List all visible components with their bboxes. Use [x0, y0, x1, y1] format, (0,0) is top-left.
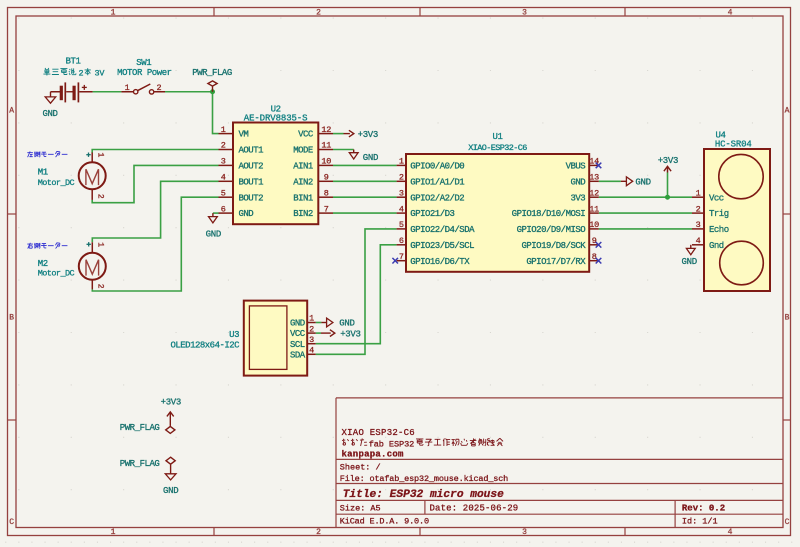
svg-text:PWR_FLAG: PWR_FLAG [192, 68, 232, 78]
svg-text:+3V3: +3V3 [358, 130, 378, 140]
svg-text:Size: A5: Size: A5 [340, 504, 381, 514]
svg-text:2: 2 [316, 528, 321, 537]
svg-text:2: 2 [696, 204, 701, 214]
svg-text:fab ESP32: fab ESP32 [369, 439, 415, 449]
svg-text:HC-SR04: HC-SR04 [715, 139, 752, 149]
svg-text:3V: 3V [95, 69, 106, 79]
svg-text:3: 3 [522, 528, 527, 537]
svg-text:1: 1 [111, 9, 116, 18]
svg-text:VBUS: VBUS [566, 162, 586, 172]
svg-text:2: 2 [95, 194, 104, 199]
svg-text:9: 9 [324, 173, 329, 183]
svg-text:Rev: 0.2: Rev: 0.2 [682, 504, 725, 514]
svg-text:Date: 2025-06-29: Date: 2025-06-29 [430, 504, 519, 514]
svg-text:MODE: MODE [293, 146, 313, 156]
svg-text:GND: GND [570, 177, 585, 187]
svg-text:GND: GND [239, 209, 254, 219]
svg-text:+3V3: +3V3 [340, 329, 360, 339]
svg-text:BT1: BT1 [65, 57, 80, 67]
svg-text:A: A [785, 107, 790, 116]
svg-text:+3V3: +3V3 [161, 398, 181, 408]
svg-text:10: 10 [321, 157, 331, 167]
svg-text:GPIO23/D5/SCL: GPIO23/D5/SCL [410, 241, 474, 251]
svg-text:Id: 1/1: Id: 1/1 [682, 517, 718, 527]
svg-text:B: B [9, 314, 14, 323]
svg-text:7: 7 [324, 204, 329, 214]
svg-text:AIN1: AIN1 [293, 162, 313, 172]
svg-text:4: 4 [696, 236, 701, 246]
svg-text:13: 13 [589, 173, 599, 183]
svg-text:1: 1 [696, 188, 701, 198]
svg-text:kanpapa.com: kanpapa.com [342, 449, 405, 459]
svg-text:SDA: SDA [290, 350, 306, 360]
svg-text:12: 12 [589, 188, 599, 198]
svg-text:8: 8 [592, 252, 597, 262]
svg-text:GND: GND [635, 177, 650, 187]
svg-text:2: 2 [309, 324, 314, 334]
svg-text:Sheet: /: Sheet: / [340, 463, 381, 473]
svg-text:12: 12 [321, 125, 331, 135]
svg-text:1: 1 [221, 125, 226, 135]
svg-text:GND: GND [163, 486, 178, 496]
svg-text:4: 4 [399, 204, 404, 214]
svg-text:GPIO22/D4/SDA: GPIO22/D4/SDA [410, 225, 475, 235]
svg-text:A: A [9, 107, 14, 116]
svg-text:Echo: Echo [709, 225, 729, 235]
svg-text:Gnd: Gnd [709, 241, 724, 251]
svg-text:M1: M1 [38, 168, 48, 178]
svg-text:AOUT2: AOUT2 [239, 162, 264, 172]
svg-text:GND: GND [682, 257, 697, 267]
svg-text:GPIO18/D10/MOSI: GPIO18/D10/MOSI [512, 209, 586, 219]
svg-text:4: 4 [309, 346, 314, 356]
svg-text:Motor_DC: Motor_DC [38, 268, 75, 278]
svg-text:C: C [785, 518, 790, 527]
svg-text:VM: VM [239, 130, 249, 140]
svg-text:GPIO0/A0/D0: GPIO0/A0/D0 [410, 162, 464, 172]
svg-text:1: 1 [125, 83, 130, 93]
svg-text:8: 8 [324, 188, 329, 198]
svg-text:OLED128x64-I2C: OLED128x64-I2C [170, 340, 240, 350]
svg-text:Vcc: Vcc [709, 193, 724, 203]
svg-text:3V3: 3V3 [570, 193, 585, 203]
svg-text:GPIO19/D8/SCK: GPIO19/D8/SCK [521, 241, 586, 251]
svg-text:SCL: SCL [290, 340, 305, 350]
svg-text:GPIO21/D3: GPIO21/D3 [410, 209, 454, 219]
svg-text:4: 4 [221, 173, 226, 183]
svg-text:KiCad E.D.A. 9.0.0: KiCad E.D.A. 9.0.0 [340, 517, 429, 527]
svg-text:2: 2 [316, 9, 321, 18]
svg-text:GND: GND [42, 109, 57, 119]
svg-text:7: 7 [399, 252, 404, 262]
svg-text:6: 6 [399, 236, 404, 246]
svg-text:2: 2 [221, 141, 226, 151]
svg-text:3: 3 [399, 188, 404, 198]
svg-text:GPIO17/D7/RX: GPIO17/D7/RX [526, 257, 586, 267]
svg-text:GND: GND [363, 153, 378, 163]
svg-text:C: C [9, 518, 14, 527]
svg-text:11: 11 [321, 141, 331, 151]
svg-text:4: 4 [728, 528, 733, 537]
svg-text:1: 1 [95, 242, 104, 247]
svg-text:AOUT1: AOUT1 [239, 146, 264, 156]
svg-text:B: B [785, 314, 790, 323]
svg-text:BIN1: BIN1 [293, 193, 313, 203]
svg-text:GPIO20/D9/MISO: GPIO20/D9/MISO [517, 225, 586, 235]
svg-text:5: 5 [221, 188, 226, 198]
svg-text:6: 6 [221, 204, 226, 214]
svg-text:2: 2 [157, 83, 162, 93]
svg-text:GPIO1/A1/D1: GPIO1/A1/D1 [410, 177, 464, 187]
svg-text:5: 5 [399, 220, 404, 230]
svg-text:2: 2 [95, 284, 104, 289]
svg-text:10: 10 [589, 220, 599, 230]
svg-text:SW1: SW1 [136, 58, 151, 68]
svg-text:1: 1 [95, 152, 104, 157]
svg-text:VCC: VCC [290, 329, 306, 339]
svg-text:3: 3 [522, 9, 527, 18]
svg-text:GPIO16/D6/TX: GPIO16/D6/TX [410, 257, 470, 267]
svg-text:4: 4 [728, 9, 733, 18]
svg-text:GND: GND [290, 319, 305, 329]
svg-text:U3: U3 [229, 330, 239, 340]
svg-text:Trig: Trig [709, 209, 729, 219]
svg-text:2: 2 [399, 173, 404, 183]
svg-text:2: 2 [79, 69, 84, 79]
svg-text:Title: ESP32 micro mouse: Title: ESP32 micro mouse [343, 489, 504, 501]
svg-text:3: 3 [221, 157, 226, 167]
svg-text:MOTOR Power: MOTOR Power [117, 68, 172, 78]
svg-text:1: 1 [111, 528, 116, 537]
svg-text:AE-DRV8835-S: AE-DRV8835-S [244, 114, 308, 124]
svg-text:1: 1 [309, 314, 314, 324]
svg-text:VCC: VCC [298, 130, 314, 140]
svg-text:BOUT2: BOUT2 [239, 193, 264, 203]
svg-text:11: 11 [589, 204, 599, 214]
svg-text:1: 1 [399, 157, 404, 167]
svg-text:+3V3: +3V3 [658, 156, 678, 166]
svg-text:GND: GND [339, 319, 354, 329]
svg-text:File: otafab_esp32_mouse.kicad: File: otafab_esp32_mouse.kicad_sch [340, 474, 508, 484]
svg-text:3: 3 [309, 335, 314, 345]
svg-text:PWR_FLAG: PWR_FLAG [120, 423, 160, 433]
svg-text:BOUT1: BOUT1 [239, 177, 264, 187]
svg-text:XIAO-ESP32-C6: XIAO-ESP32-C6 [468, 143, 527, 153]
svg-text:Motor_DC: Motor_DC [38, 178, 75, 188]
svg-text:GPIO2/A2/D2: GPIO2/A2/D2 [410, 193, 464, 203]
svg-text:AIN2: AIN2 [293, 177, 313, 187]
svg-text:PWR_FLAG: PWR_FLAG [120, 459, 160, 469]
svg-text:U1: U1 [492, 132, 502, 142]
svg-text:GND: GND [206, 229, 221, 239]
svg-text:XIAO ESP32-C6: XIAO ESP32-C6 [342, 428, 415, 438]
svg-text:BIN2: BIN2 [293, 209, 313, 219]
svg-text:9: 9 [592, 236, 597, 246]
svg-text:3: 3 [696, 220, 701, 230]
